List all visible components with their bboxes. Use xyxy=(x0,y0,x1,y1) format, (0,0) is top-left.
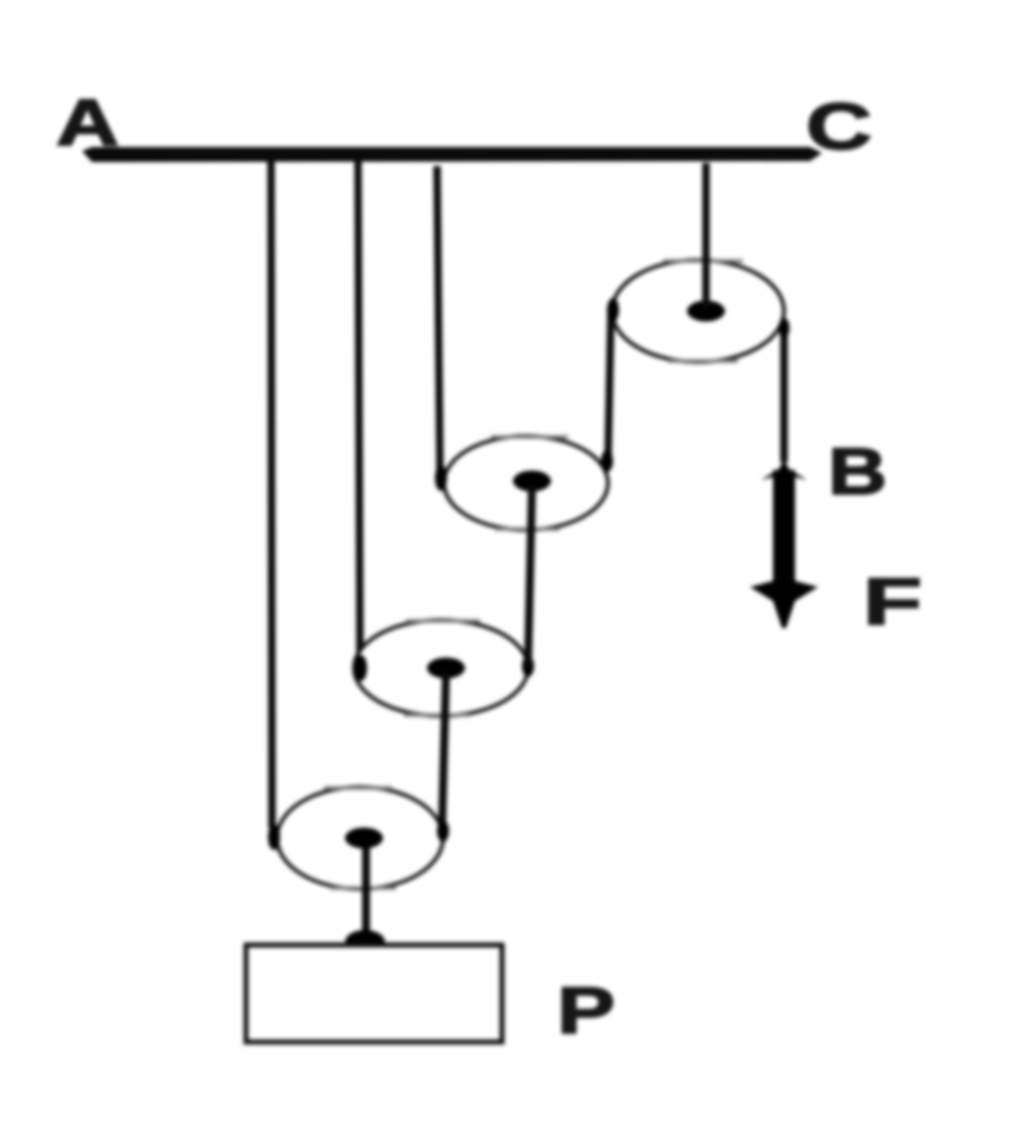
pulley 1 (top right) xyxy=(612,260,784,362)
axle of pulley 1 xyxy=(687,301,725,322)
wire rope ceiling to pulley1 axle xyxy=(702,163,710,308)
svg-text:B: B xyxy=(828,434,887,508)
wire rope pulley2 axle to pulley3 right xyxy=(528,486,532,664)
wire rope pulley3 axle to pulley4 right xyxy=(442,672,446,828)
pulley 2 xyxy=(444,436,608,530)
ceiling beam A-C xyxy=(82,147,822,162)
junction pulley2 right xyxy=(601,450,613,472)
pulley 4 (bottom) xyxy=(277,787,443,889)
wire rope L2 ceiling to pulley3 left xyxy=(358,158,360,666)
junction pulley4 right xyxy=(437,820,449,842)
hook dot on weight xyxy=(345,930,385,954)
axle of pulley 2 xyxy=(513,471,551,492)
svg-text:P: P xyxy=(557,973,615,1047)
svg-text:A: A xyxy=(56,85,119,159)
wire rope pulley4 axle to weight xyxy=(362,842,370,940)
junction pulley4 left xyxy=(268,824,280,850)
wire rope L1 ceiling to pulley4 left xyxy=(271,158,272,828)
junction pulley3 left xyxy=(355,655,367,681)
weight box P xyxy=(246,945,502,1042)
axle of pulley 3 xyxy=(427,658,465,679)
svg-text:C: C xyxy=(806,89,872,163)
wire rope pulley1 right to force arrow xyxy=(780,324,788,462)
axle of pulley 4 xyxy=(345,828,383,849)
junction pulley1 right xyxy=(779,318,790,338)
junction pulley1 left xyxy=(607,298,619,322)
junction pulley3 right xyxy=(522,655,534,677)
junction pulley2 left xyxy=(435,465,447,491)
pulley 3 xyxy=(354,620,528,716)
svg-text:F: F xyxy=(863,564,922,638)
wire rope pulley1 left to pulley2 right xyxy=(608,308,611,460)
force arrow F at B xyxy=(750,459,818,628)
wire rope L3 ceiling to pulley2 left xyxy=(437,166,440,478)
